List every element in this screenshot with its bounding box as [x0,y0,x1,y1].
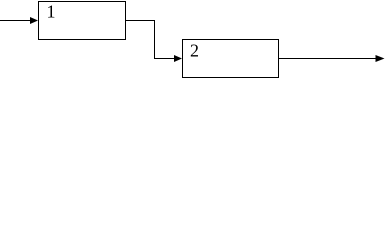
arrowhead output [376,55,385,62]
block 2 [183,40,279,78]
svg-text:2: 2 [190,41,199,61]
wire from block 1 to block 2 [125,21,175,59]
arrowhead into block 1 [30,17,38,24]
arrowhead into block 2 [174,55,182,62]
block 1 [39,2,126,40]
svg-text:1: 1 [47,2,56,22]
wire input [0,20,31,22]
wire output [278,58,377,60]
